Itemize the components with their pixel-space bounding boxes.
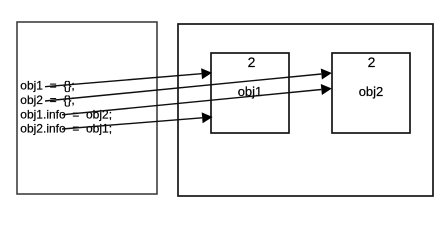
svg-text:2: 2: [248, 54, 256, 70]
svg-text:2: 2: [368, 54, 376, 70]
svg-text:obj2: obj2: [359, 84, 384, 99]
svg-text:obj2 = {};: obj2 = {};: [20, 93, 74, 107]
